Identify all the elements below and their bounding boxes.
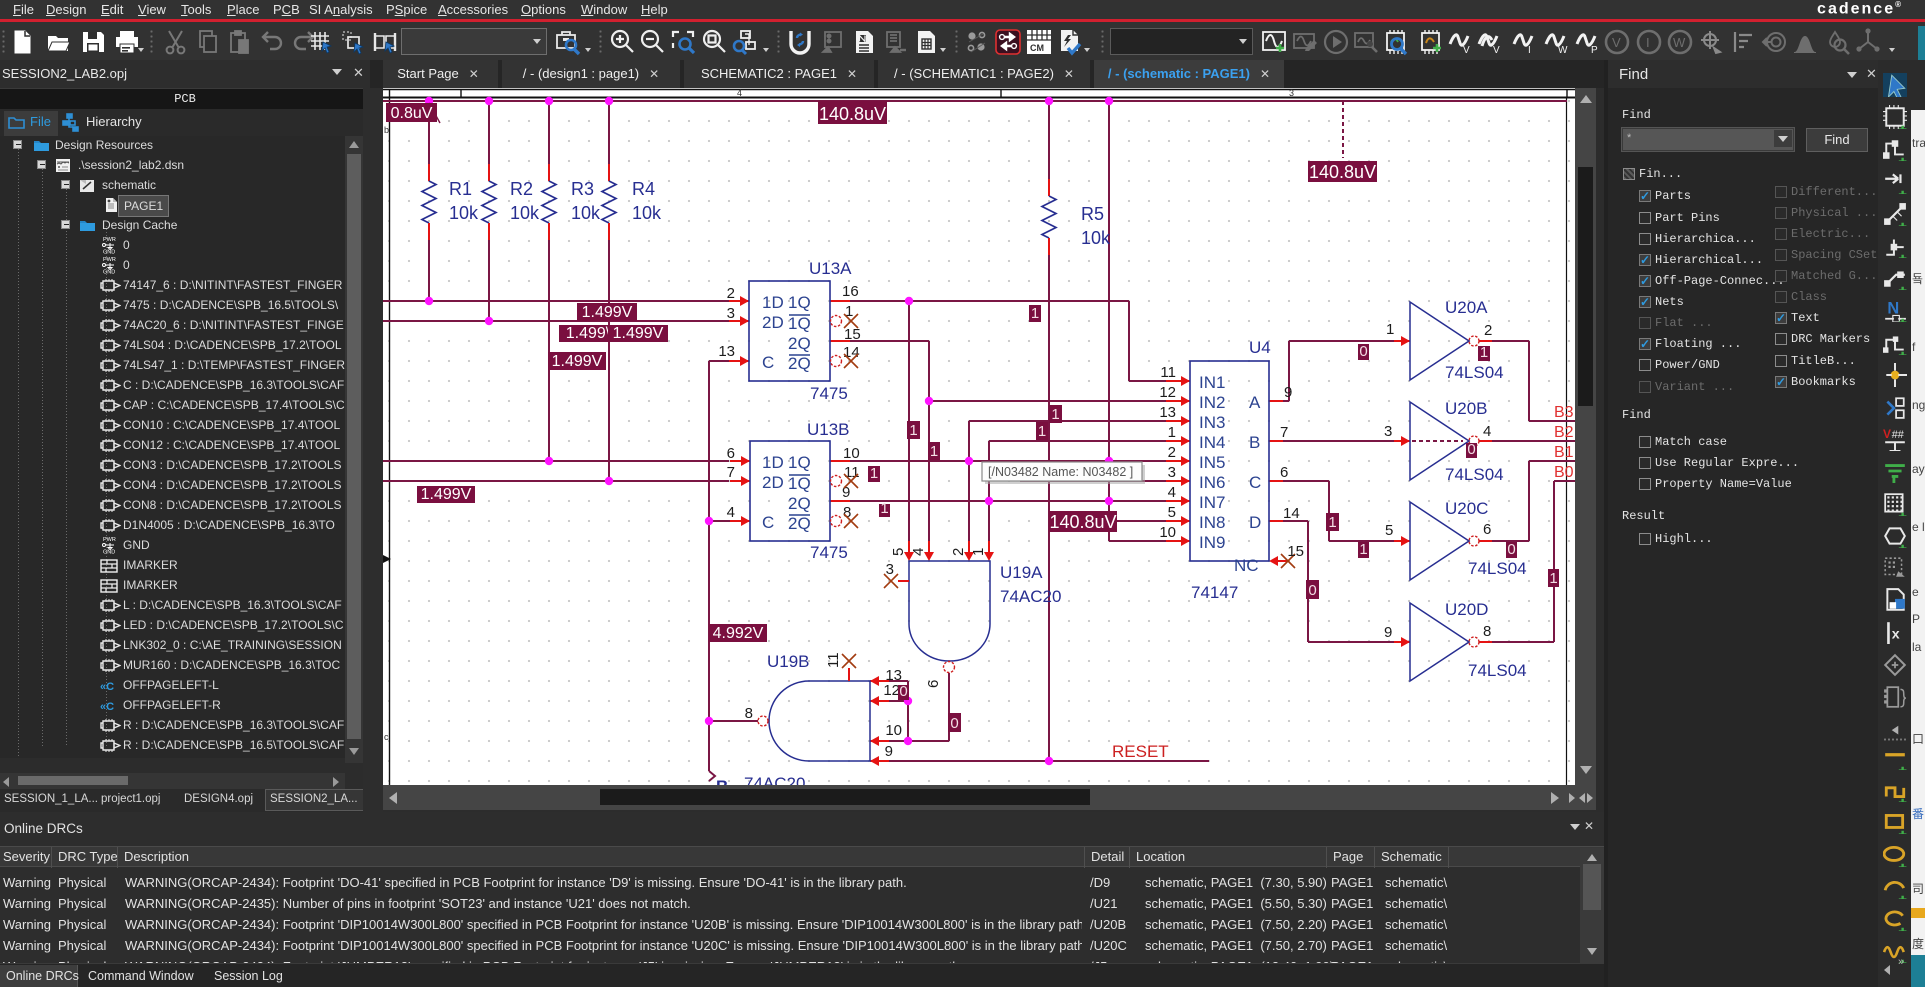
svg-text:3: 3	[886, 561, 894, 578]
svg-text:D: D	[1249, 513, 1261, 532]
svg-text:1: 1	[970, 548, 987, 556]
wire U13A C pin row	[709, 360, 729, 362]
bias label 1.499V b	[559, 325, 617, 342]
svg-text:R2: R2	[510, 179, 533, 199]
svg-text:1Q: 1Q	[788, 453, 811, 472]
state flag 0	[1466, 443, 1477, 458]
wire column to IN5/IN7/IN9	[1108, 101, 1110, 541]
svg-text:4: 4	[910, 548, 927, 556]
svg-text:U19A: U19A	[1000, 563, 1043, 582]
svg-text:1: 1	[1359, 541, 1367, 558]
svg-text:13: 13	[1159, 404, 1176, 421]
grid/snap icons with blue cursor	[307, 28, 335, 56]
wire U4 C out	[1283, 480, 1329, 482]
wire column x929 to U19A pin4	[928, 341, 930, 541]
state flag 1	[1326, 513, 1339, 531]
svg-text:74AC20: 74AC20	[1000, 587, 1061, 606]
CM	[1025, 28, 1053, 56]
wire net to U13B 2D	[383, 480, 729, 482]
junction	[605, 477, 613, 485]
wire net to U13A 2D	[383, 320, 729, 322]
nand U19B 74AC20	[769, 681, 870, 761]
wire U20A out	[1492, 340, 1529, 342]
svg-text:4: 4	[1483, 423, 1491, 440]
svg-text:3: 3	[1289, 88, 1294, 98]
wire R2 bottom	[488, 240, 490, 321]
svg-text:IN7: IN7	[1199, 493, 1225, 512]
svg-text:1: 1	[909, 422, 917, 439]
svg-text:GND: GND	[103, 250, 115, 255]
state flag 1	[868, 466, 880, 482]
svg-text:1.499V: 1.499V	[582, 304, 633, 321]
svg-text:7475: 7475	[810, 384, 848, 403]
svg-text:4: 4	[727, 504, 735, 521]
svg-text:10k: 10k	[1081, 228, 1111, 248]
chip mag	[1382, 28, 1410, 56]
svg-text:1: 1	[1386, 321, 1394, 338]
svg-text:10: 10	[885, 722, 902, 739]
svg-text:14: 14	[843, 344, 860, 361]
wire 1Q corner down	[1128, 301, 1130, 381]
wire R4 top	[608, 101, 610, 181]
svg-text:16: 16	[842, 283, 859, 300]
junction	[485, 97, 493, 105]
svg-text:10k: 10k	[571, 203, 601, 223]
svg-text:I: I	[1528, 45, 1531, 56]
svg-text:9: 9	[1384, 624, 1392, 641]
svg-text:V: V	[1493, 45, 1500, 56]
state flag 1	[1049, 405, 1062, 423]
svg-text:7: 7	[727, 464, 735, 481]
svg-text:1D: 1D	[762, 453, 784, 472]
svg-text:U20D: U20D	[1445, 600, 1488, 619]
svg-text:U13A: U13A	[809, 259, 852, 278]
svg-text:1.499\: 1.499\	[566, 325, 611, 342]
svg-text:A: A	[1249, 393, 1261, 412]
combo 1	[401, 28, 547, 55]
svg-text:140.8uV: 140.8uV	[1309, 162, 1376, 182]
state flag 0	[1358, 344, 1369, 360]
wire R1 bottom	[428, 240, 430, 301]
svg-text:6: 6	[1483, 521, 1491, 538]
wire R2 top	[488, 101, 490, 181]
wire column x969 to U19A pin2	[968, 421, 970, 541]
svg-text:74LS04: 74LS04	[1445, 363, 1504, 382]
resistor R3	[548, 164, 550, 181]
sheet border top	[383, 89, 1575, 91]
origin marker arrow	[383, 555, 391, 563]
latch U13B 7475	[750, 441, 830, 541]
state flag 1	[1548, 569, 1559, 587]
bias label 1.499V a	[577, 303, 637, 321]
svg-text:74147: 74147	[1191, 583, 1238, 602]
svg-text:B1: B1	[1554, 444, 1574, 461]
svg-text:NC: NC	[1234, 556, 1259, 575]
bias label 1.499V e	[417, 486, 475, 503]
state flag 1	[1478, 346, 1490, 361]
svg-text:6: 6	[727, 445, 735, 462]
svg-text:V: V	[1612, 35, 1621, 50]
svg-text:1.499V: 1.499V	[552, 353, 603, 370]
bias label 140.8uV mid	[1049, 511, 1117, 532]
junction	[1105, 457, 1113, 465]
svg-text:C: C	[762, 353, 774, 372]
svg-text:R1: R1	[449, 179, 472, 199]
svg-text:15: 15	[1287, 543, 1304, 560]
latch U13A 7475	[749, 281, 830, 381]
svg-text:0: 0	[1359, 343, 1367, 360]
U13A output stubs	[830, 300, 850, 302]
junction	[904, 697, 912, 705]
wire R1 top	[428, 101, 430, 181]
wire U13A 2Q net	[850, 340, 929, 342]
wire U20C out	[1492, 540, 1529, 542]
svg-text:U4: U4	[1249, 338, 1271, 357]
wire into IN9	[1109, 540, 1166, 542]
sheet border right	[1566, 97, 1568, 785]
probes	[1446, 28, 1474, 56]
svg-text:«C: «C	[100, 701, 114, 712]
svg-text:1: 1	[1038, 423, 1046, 440]
svg-text:5: 5	[1168, 504, 1176, 521]
state flag 0	[898, 685, 909, 700]
wire U19B pin8 out	[709, 720, 758, 722]
state flag 1	[879, 504, 890, 517]
new/open/save/print	[8, 28, 36, 56]
wire R5 top	[1048, 101, 1050, 196]
svg-text:11: 11	[1160, 364, 1176, 381]
svg-text:R3: R3	[571, 179, 594, 199]
dotted guides	[18, 146, 19, 756]
wire column x989 to U19A pin1	[988, 441, 990, 541]
wire net to U13A 1D	[383, 300, 729, 302]
svg-text:6: 6	[925, 680, 942, 688]
wire into IN8	[1109, 520, 1166, 522]
junction	[425, 97, 433, 105]
U13B no-connect pins	[831, 476, 842, 487]
svg-text:B3: B3	[1554, 404, 1574, 421]
wire U20D out	[1492, 641, 1554, 643]
svg-text:2: 2	[727, 285, 735, 302]
svg-text:PWR: PWR	[103, 537, 116, 543]
wire U13B 1Q to IN5	[850, 460, 1166, 462]
wire U19B pin12	[889, 700, 908, 702]
svg-text:3: 3	[1384, 423, 1392, 440]
svg-text:5: 5	[890, 548, 907, 556]
svg-text:3: 3	[727, 305, 735, 322]
U4 NC pin	[1269, 556, 1278, 566]
wire column x908	[907, 681, 909, 741]
wire R3 bottom	[548, 240, 550, 461]
svg-text:IN4: IN4	[1199, 433, 1225, 452]
U13B input pin stubs	[730, 460, 750, 462]
svg-text:B0: B0	[1554, 464, 1574, 481]
U13A no-connect pins	[831, 316, 842, 327]
wire into IN1	[1129, 380, 1170, 382]
junction	[965, 457, 973, 465]
svg-text:U20C: U20C	[1445, 499, 1488, 518]
wire top 140.8uV rail	[383, 100, 1567, 102]
svg-text:1Q: 1Q	[788, 474, 811, 493]
junction	[425, 297, 433, 305]
svg-text:11: 11	[825, 652, 842, 668]
wire into IN3	[969, 420, 1170, 422]
svg-text:RESET: RESET	[1112, 742, 1169, 761]
dashed stub U20B input	[1412, 440, 1463, 442]
svg-text:IN1: IN1	[1199, 373, 1225, 392]
svg-text:R5: R5	[1081, 204, 1104, 224]
state flag 1	[907, 421, 920, 439]
wire into IN6	[1020, 480, 1166, 482]
inverter U20D 74LS04	[1410, 603, 1469, 681]
dots	[963, 28, 991, 56]
svg-text:[/N03482 Name: N03482 ]: [/N03482 Name: N03482 ]	[988, 465, 1133, 479]
junction	[605, 97, 613, 105]
wire R3 top	[548, 101, 550, 181]
wire U19A out to pin10	[908, 740, 949, 742]
tooltip N03482	[985, 465, 1145, 484]
resistor R1	[428, 164, 430, 181]
inverter U20A 74LS04	[1410, 302, 1469, 380]
encoder U4 74147	[1190, 361, 1269, 561]
svg-text:10: 10	[1159, 524, 1176, 541]
resistor R2	[488, 164, 490, 181]
svg-text:IN2: IN2	[1199, 393, 1225, 412]
svg-text:4.992V: 4.992V	[713, 625, 764, 642]
U19A input stubs	[908, 541, 910, 552]
svg-text:«C: «C	[100, 681, 114, 692]
svg-text:3: 3	[1168, 464, 1176, 481]
waveform icons	[1261, 28, 1289, 56]
junction	[1105, 97, 1113, 105]
svg-text:IN5: IN5	[1199, 453, 1225, 472]
svg-text:9: 9	[885, 743, 893, 760]
drc vertical scrollbar	[1580, 848, 1604, 963]
svg-text:1D: 1D	[762, 293, 784, 312]
svg-text:1.499V: 1.499V	[613, 325, 664, 342]
svg-text:12: 12	[1159, 384, 1176, 401]
dashed pointer 140.8uV	[1342, 101, 1344, 158]
junction	[705, 717, 713, 725]
wire R5 bottom / RESET column	[1048, 255, 1050, 761]
svg-text:0: 0	[1507, 541, 1515, 558]
svg-text:PWR: PWR	[103, 237, 116, 243]
state flag 0	[1306, 580, 1319, 599]
svg-text:IN9: IN9	[1199, 533, 1225, 552]
svg-text:10k: 10k	[510, 203, 540, 223]
junction	[904, 737, 912, 745]
svg-text:8: 8	[1483, 623, 1491, 640]
wire vertical x709	[708, 361, 710, 771]
svg-text:0: 0	[950, 715, 958, 732]
svg-text:74LS04: 74LS04	[1468, 661, 1527, 680]
svg-text:2Q: 2Q	[788, 514, 811, 533]
state flag 0	[1506, 542, 1517, 558]
junction	[545, 97, 553, 105]
wire U4 D out	[1283, 520, 1308, 522]
svg-text:1: 1	[845, 303, 853, 320]
svg-text:8: 8	[843, 504, 851, 521]
svg-text:10k: 10k	[449, 203, 479, 223]
junction	[1105, 497, 1113, 505]
svg-text:B: B	[716, 777, 728, 785]
cut/copy/paste/undo/redo (disabled)	[162, 28, 190, 56]
svg-text:15: 15	[844, 326, 861, 343]
junction	[1045, 97, 1053, 105]
svg-text:0: 0	[899, 683, 907, 700]
svg-text:1: 1	[930, 443, 938, 460]
wire R4 bottom	[608, 240, 610, 481]
svg-text:R4: R4	[632, 179, 655, 199]
junction	[485, 317, 493, 325]
svg-text:12: 12	[883, 682, 900, 699]
svg-text:1: 1	[1480, 344, 1488, 361]
svg-text:7475: 7475	[810, 543, 848, 562]
svg-text:I: I	[1646, 35, 1650, 50]
svg-text:C: C	[1249, 473, 1261, 492]
U19B pin stubs	[870, 680, 889, 682]
svg-text:U20A: U20A	[1445, 298, 1488, 317]
svg-text:11: 11	[844, 464, 860, 481]
svg-text:1: 1	[1031, 305, 1039, 322]
wire RESET net	[889, 760, 1209, 762]
svg-text:140.8uV: 140.8uV	[819, 104, 886, 124]
bias label 4.992V	[709, 624, 767, 642]
svg-text:2D: 2D	[762, 313, 784, 332]
svg-text:1: 1	[1051, 406, 1059, 423]
wire into IN4 / to U20B	[989, 440, 1170, 442]
U20 input stubs	[1394, 340, 1410, 342]
junction	[985, 497, 993, 505]
state flag 1	[1029, 305, 1041, 322]
U13B output stubs	[830, 460, 850, 462]
svg-text:U19B: U19B	[767, 652, 810, 671]
svg-text:1: 1	[1168, 424, 1176, 441]
svg-text:IN6: IN6	[1199, 473, 1225, 492]
svg-text:2D: 2D	[762, 473, 784, 492]
svg-text:1: 1	[1549, 570, 1557, 587]
svg-text:B2: B2	[1554, 424, 1574, 441]
svg-text:8: 8	[745, 705, 753, 722]
svg-text:C: C	[762, 513, 774, 532]
bias label 140.8uV top	[818, 101, 887, 124]
svg-text:74LS04: 74LS04	[1468, 559, 1527, 578]
wire net B3	[1529, 420, 1575, 422]
bias label 1.499V d	[548, 352, 606, 370]
svg-text:13: 13	[718, 343, 735, 360]
svg-text:##: ##	[1892, 429, 1904, 441]
svg-text:2: 2	[950, 548, 967, 556]
svg-text:2: 2	[1168, 444, 1176, 461]
svg-text:140.8uV: 140.8uV	[1049, 512, 1116, 532]
svg-text:10k: 10k	[632, 203, 662, 223]
U20 output stubs	[1479, 340, 1492, 342]
toolbox search	[554, 28, 582, 56]
wire U4 B out to U20B	[1283, 440, 1396, 442]
svg-text:1Q: 1Q	[788, 314, 811, 333]
state flag 1	[1358, 542, 1369, 558]
junction	[545, 457, 553, 465]
svg-text:0: 0	[1467, 441, 1475, 458]
svg-text:7: 7	[1280, 424, 1288, 441]
svg-text:1Q: 1Q	[788, 293, 811, 312]
nand U19A 74AC20	[909, 561, 990, 661]
sheet border left	[389, 89, 391, 785]
wire U19B pin13	[889, 680, 908, 682]
svg-text:V: V	[1883, 427, 1891, 441]
svg-text:U20B: U20B	[1445, 399, 1488, 418]
svg-text:W: W	[1673, 35, 1686, 50]
check doc	[1056, 28, 1084, 56]
svg-text:V: V	[1463, 45, 1470, 56]
svg-text:c: c	[384, 732, 389, 742]
state flag 0	[948, 713, 961, 732]
svg-text:2Q: 2Q	[788, 354, 811, 373]
wire U4 A out	[1283, 400, 1289, 402]
svg-text:x: x	[1892, 627, 1900, 643]
svg-text:1: 1	[870, 465, 878, 482]
state flag 1	[928, 442, 940, 460]
U loop	[786, 28, 814, 56]
bias label 140.8uV right	[1308, 161, 1377, 182]
wire net to U13B 1D	[383, 460, 729, 462]
svg-text:IN3: IN3	[1199, 413, 1225, 432]
svg-text:4: 4	[1168, 484, 1176, 501]
wire U13B 2Q to IN7	[850, 500, 1166, 502]
state flag 1	[1036, 422, 1048, 440]
wire into IN2	[929, 400, 1170, 402]
junction	[1045, 757, 1053, 765]
U4 input pin stubs	[1166, 380, 1190, 382]
svg-text:W: W	[1558, 45, 1568, 56]
U4 output stubs	[1269, 400, 1283, 402]
inverter U20B 74LS04	[1410, 402, 1469, 480]
svg-text:IN8: IN8	[1199, 513, 1225, 532]
svg-text:14: 14	[1283, 505, 1300, 522]
junction	[905, 297, 913, 305]
grey circles V I W	[1603, 28, 1631, 56]
svg-text:1: 1	[1328, 514, 1336, 531]
wire branch to U13B C	[709, 520, 730, 522]
wire column x909 to U19A pin5	[908, 301, 910, 541]
junction	[705, 517, 713, 525]
wire net B0	[1554, 480, 1575, 482]
svg-text:P: P	[1591, 45, 1598, 56]
bias label 1.499V c	[608, 325, 668, 342]
svg-text:b: b	[384, 125, 389, 135]
svg-text:2Q: 2Q	[788, 494, 811, 513]
svg-text:1: 1	[880, 500, 888, 517]
resistor R4	[608, 164, 610, 181]
svg-text:4: 4	[737, 88, 742, 98]
inverter U20C 74LS04	[1410, 502, 1469, 580]
U13A input pin stubs	[729, 300, 749, 302]
resistor R5	[1048, 179, 1050, 196]
svg-text:2Q: 2Q	[788, 334, 811, 353]
svg-text:74LS04: 74LS04	[1445, 465, 1504, 484]
svg-text:0: 0	[1308, 582, 1316, 599]
svg-text:6: 6	[1280, 464, 1288, 481]
svg-text:1.499V: 1.499V	[421, 486, 472, 503]
svg-text:U13B: U13B	[807, 420, 850, 439]
wire U19B pin10	[889, 740, 908, 742]
svg-text:B: B	[1249, 433, 1260, 452]
wire U13A 1Q net	[850, 300, 1129, 302]
wire net B1	[1529, 460, 1575, 462]
svg-text:10: 10	[843, 445, 860, 462]
bias label 0.8uV top-left	[386, 103, 437, 122]
junction	[925, 397, 933, 405]
